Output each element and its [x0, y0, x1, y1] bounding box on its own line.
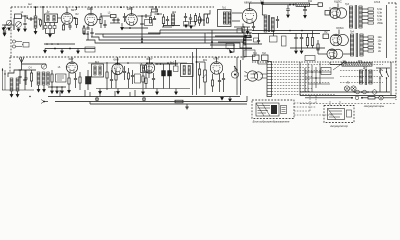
output bottom wire	[234, 26, 250, 28]
svg-text:R21: R21	[203, 60, 208, 62]
det box a	[184, 22, 189, 27]
harness wire 4	[120, 48, 252, 50]
ground bias	[185, 105, 189, 109]
choke bottom box	[270, 36, 278, 42]
svg-text:6А8: 6А8	[113, 58, 119, 62]
wire lower grid	[22, 63, 47, 65]
harness dashed lead 8	[272, 85, 307, 87]
phone jack J1	[44, 101, 48, 103]
tube V8 6A8 lower converter	[112, 63, 123, 74]
vibrator contact detail	[251, 74, 256, 78]
speaker to strip wire	[257, 61, 259, 65]
det box b	[190, 22, 195, 27]
AVC resistor R6	[152, 9, 158, 12]
svg-text:6Ж7: 6Ж7	[127, 7, 134, 11]
diode load resistor R5	[149, 18, 151, 24]
bus stub 4	[114, 91, 116, 97]
T1 core	[226, 11, 228, 25]
driver coupling cap C31	[200, 18, 201, 21]
output tube bypass C13	[252, 26, 255, 27]
V7 bypass capacitor C20	[74, 78, 77, 79]
output arrow right	[229, 98, 232, 101]
ground oscillator	[121, 27, 124, 30]
heater bus third	[90, 103, 247, 105]
power wires lower	[376, 67, 390, 69]
filter capacitor C15 electrolytic	[304, 7, 306, 9]
buffer capacitor C16	[295, 34, 297, 38]
svg-text:СЛ-6: СЛ-6	[374, 0, 381, 4]
tuning gang C19.1	[41, 64, 46, 69]
ground lower b	[16, 94, 19, 97]
filament dropping resistor R24 wirewound	[342, 63, 372, 66]
power unit dashed border top	[388, 2, 396, 4]
terminal X1 pin 6	[267, 79, 272, 81]
tube V10 6F6 lower output	[210, 62, 222, 74]
ammeter shunt R25	[368, 97, 375, 99]
wire det bottom	[163, 25, 180, 27]
feed vertical pair a	[236, 57, 238, 95]
power input resistor R27	[317, 44, 319, 50]
grid leak R8	[194, 16, 196, 22]
bleeder resistor R12	[306, 38, 308, 46]
harness drop a	[204, 33, 206, 43]
lower bus risers	[329, 62, 331, 65]
speaker transformer windings	[243, 38, 245, 45]
harness corner path 3	[210, 45, 234, 52]
ground collector b	[117, 91, 120, 94]
ground IFT1	[49, 34, 52, 37]
coupling capacitor C21	[110, 79, 113, 80]
vibrator transformer socket	[323, 34, 329, 39]
output transformer T2 primary	[264, 15, 267, 32]
switch wafer box B	[244, 50, 255, 57]
IF can 2 secondary	[99, 66, 101, 75]
padding cap C34	[18, 76, 21, 77]
harness to vibrator box	[294, 102, 316, 104]
panel lamp HL3	[379, 96, 383, 100]
ground lower e	[56, 90, 59, 93]
terminal X1 pin 10	[267, 91, 272, 93]
antenna coil T5 primary	[10, 78, 13, 91]
osc section capacitor C28	[103, 24, 106, 25]
mid cluster box	[254, 38, 259, 42]
harness dashed lead 4	[272, 73, 309, 75]
V8 grid capacitor C32	[123, 71, 126, 72]
ground collector d	[156, 91, 159, 94]
detector filter choke L4	[171, 14, 174, 25]
power wiring horizontals	[305, 71, 331, 73]
svg-text:6Ц5С: 6Ц5С	[334, 0, 343, 4]
bus crosslink 1	[96, 97, 98, 102]
output tube cathode resistor R10	[242, 27, 244, 32]
mid box	[85, 47, 95, 52]
vibrator converter terminals	[281, 106, 287, 114]
trimmer block b	[49, 26, 52, 29]
filter resistor R11 wirewound	[296, 3, 310, 6]
power mid fuse circles	[356, 90, 360, 94]
power switch S2	[379, 71, 380, 72]
svg-text:Др3: Др3	[363, 67, 368, 69]
junction lower row	[146, 62, 148, 64]
svg-text:Др2: Др2	[172, 12, 177, 14]
screen resistor R17	[115, 74, 117, 80]
screen junction top	[155, 6, 157, 8]
relay box power	[321, 68, 331, 75]
buffer capacitor C17	[301, 34, 303, 38]
pilot lamp HL2	[351, 86, 356, 91]
battery leads dashed	[329, 100, 331, 106]
tone capacitor C12	[189, 18, 192, 19]
antenna coil T5 step wire	[8, 64, 22, 77]
harness dashed lead 11	[272, 94, 336, 96]
converter bias wire	[87, 31, 89, 40]
jack terminal box	[23, 43, 29, 48]
harness junction 1	[141, 38, 143, 40]
extra nested corner 4	[207, 32, 250, 34]
IF coupling capacitor C9	[145, 14, 146, 17]
harness dashed lead 5	[272, 76, 313, 78]
ground input 3	[17, 28, 20, 31]
pickup jack Zv2	[12, 45, 15, 48]
AVC bus lower deck	[88, 62, 187, 64]
grid resistor R15	[79, 77, 81, 83]
screen feed wire 2	[252, 33, 320, 35]
ground output stage	[221, 97, 224, 100]
filter node 1	[289, 4, 291, 6]
IFT1 primary winding	[47, 16, 49, 22]
IF can 3 secondary	[188, 66, 190, 75]
ground output tube	[246, 31, 249, 34]
trimmer block c	[53, 26, 56, 29]
antenna V mark	[19, 58, 24, 63]
heater tap wire a	[362, 8, 368, 10]
tube V6 vibrator rectifier double	[330, 34, 342, 46]
electrolytic cap dark a	[162, 71, 166, 77]
wire driver step	[204, 10, 210, 26]
band coil L6	[37, 72, 40, 85]
terminal X1 pin 4	[267, 73, 272, 75]
harness junction 2	[129, 27, 131, 29]
ground input 4	[24, 28, 27, 31]
heater tap wire b	[362, 15, 368, 17]
stabilizer feed	[318, 53, 327, 55]
lower bus power 1	[300, 91, 390, 93]
rectifier socket box	[325, 11, 331, 16]
lower deck collector bus	[96, 88, 190, 90]
wafer box lower	[56, 74, 67, 82]
power switch S3	[386, 71, 387, 72]
svg-text:6Ф6С: 6Ф6С	[244, 1, 253, 5]
terminal X1 pin 1	[267, 64, 272, 66]
svg-text:6А8: 6А8	[87, 7, 93, 11]
tuning capacitor C3.1	[16, 22, 22, 28]
tube V4 6F6 output	[242, 9, 257, 24]
filter choke L9 winding	[359, 70, 362, 84]
band coil L7	[42, 72, 45, 85]
svg-text:ВП: ВП	[253, 74, 257, 76]
padder capacitor C18	[23, 79, 26, 80]
power terminal box bottom	[305, 56, 315, 61]
det wire row	[155, 63, 178, 65]
V2 grid resistor R3	[83, 28, 85, 34]
oscillator padder C7	[112, 19, 115, 20]
ground lower h	[43, 89, 46, 92]
vibrator converter pictorial details	[258, 106, 271, 114]
IF bypass C29	[140, 23, 143, 24]
harness wire top	[148, 32, 252, 34]
coupling capacitor C11	[184, 16, 187, 17]
lightning arrester F1	[3, 27, 7, 31]
ground lower c	[68, 90, 71, 93]
bus lower second	[55, 101, 247, 103]
mid cluster res R32	[245, 35, 251, 37]
padding cap C35	[24, 78, 27, 79]
V9 bypass C23	[152, 78, 155, 79]
bus stub 6	[134, 90, 136, 97]
vibrator prongs	[244, 72, 248, 81]
B+ rail junction	[261, 2, 263, 4]
svg-text:250в: 250в	[377, 22, 383, 25]
electrolytic cap dark b	[168, 71, 172, 77]
harness corner path 1	[215, 36, 246, 57]
V9 cathode resistor R19	[145, 78, 147, 84]
lower deck left bus	[2, 89, 34, 91]
harness dashed lead 7	[272, 82, 331, 84]
terminal X1 pin 3	[267, 70, 272, 72]
svg-text:Блок вибропреобразователя: Блок вибропреобразователя	[253, 120, 290, 124]
IF transformer IFT1 can	[45, 14, 58, 23]
V2 anode decoupling R4	[100, 17, 102, 24]
feed corner junction	[196, 61, 198, 63]
V10 bypass capacitor C25	[218, 80, 221, 81]
pilot lamp HL1	[344, 86, 349, 91]
junction driver	[203, 19, 205, 21]
switch arm S1	[234, 66, 237, 70]
chassis bus lower	[48, 96, 240, 98]
harness dashed lead 6	[272, 79, 311, 81]
driver grid stopper R9	[207, 18, 209, 23]
vibrator to strip wire b	[261, 77, 268, 79]
battery feed wire	[305, 97, 352, 99]
accumulator box dashed	[324, 106, 354, 123]
V8 padder C22	[147, 71, 150, 72]
AVC decoupling R16	[106, 72, 108, 78]
svg-text:Фп2: Фп2	[170, 61, 175, 64]
IF can 2	[92, 64, 104, 77]
bus stub 1	[84, 90, 86, 97]
accumulator terminals	[347, 110, 352, 117]
wire input node	[22, 15, 29, 17]
ground mid 3	[77, 50, 80, 53]
ground choke L2	[34, 31, 37, 34]
AF plate resistor R29	[198, 17, 200, 23]
terminal X1 pin 8	[267, 85, 272, 87]
bus crosslink 2	[143, 97, 145, 102]
riser power b	[304, 68, 306, 92]
harness dashed lead 9	[272, 88, 313, 90]
terminal X1 pin 11	[267, 94, 272, 96]
oscillator trimmer C8	[116, 19, 119, 20]
V8 screen cap C33	[131, 75, 134, 76]
power transformer T3 secondary winding	[359, 6, 362, 28]
V1 plate load resistor R2	[75, 19, 77, 25]
voice coil lead	[277, 16, 279, 19]
heater tap wire c	[362, 22, 368, 24]
receiver chassis dashed border (left)	[10, 7, 12, 56]
tap wire d	[363, 36, 368, 38]
harness drop b	[211, 30, 213, 49]
svg-text:Фп1: Фп1	[95, 61, 100, 64]
terminal X1 pin 9	[267, 88, 272, 90]
feed vertical pair b	[240, 60, 242, 95]
pickup jack Zv1	[12, 40, 15, 43]
junction row lower deck	[51, 86, 53, 88]
svg-text:6К7: 6К7	[71, 8, 76, 12]
AF choke tap wires	[232, 12, 242, 14]
speaker terminal box Gr1	[253, 55, 260, 61]
power unit dashed border right	[395, 3, 397, 100]
V8 grid resistor R18	[142, 76, 144, 82]
bus stub 3	[99, 90, 101, 97]
IF can 3	[181, 64, 194, 77]
output transformer T2 core	[268, 15, 270, 32]
converter bias cap C36	[90, 32, 93, 33]
power unit dashed divider	[252, 61, 396, 63]
vibrator transformer T4 secondary	[360, 34, 363, 56]
loop antenna lead-in	[21, 57, 23, 64]
tube V2 6A8 converter	[85, 13, 97, 25]
tap wire f	[363, 50, 368, 52]
filter capacitor C14 electrolytic	[287, 5, 289, 9]
second det cap C30	[166, 19, 169, 20]
polarity diamond	[372, 89, 378, 94]
IFT1 secondary winding	[53, 16, 55, 22]
harness dashed bundle right extension	[340, 64, 383, 66]
ground mid 2	[61, 50, 64, 53]
harness wire 2	[91, 37, 252, 40]
tube V5 6Ts5 rectifier double diode	[330, 8, 341, 19]
harness dashed lead 1	[272, 64, 341, 66]
ground detector 1	[185, 24, 188, 27]
band coil L10	[47, 72, 49, 85]
tube V11 stabilizer double	[327, 49, 337, 59]
gang link dashed lower	[44, 74, 52, 76]
terminal X1 pin 2	[267, 67, 272, 69]
receiver lower-deck dashed border	[10, 56, 247, 58]
harness wire 1	[95, 34, 252, 37]
RF choke L2 to chassis line	[35, 8, 37, 16]
vibrator to strip wire a	[261, 73, 268, 75]
mid junction dots	[46, 43, 48, 45]
accumulator dashed feeder	[300, 103, 396, 105]
vibrator transformer T4 core	[355, 33, 357, 57]
accumulator pictorial	[328, 109, 345, 120]
series resistor R30	[30, 73, 32, 81]
padding capacitor C4	[23, 23, 26, 24]
grid cap C26	[222, 78, 225, 79]
ground detector 2	[190, 25, 193, 28]
harness corner path 2	[218, 42, 243, 60]
link resistor R26	[40, 20, 42, 25]
component box lower mid	[135, 74, 141, 83]
V7 cathode resistor R14	[68, 78, 70, 84]
svg-text:6,3в: 6,3в	[377, 19, 382, 22]
V8 cathode resistor R28	[127, 73, 129, 79]
IF grid junction	[141, 15, 143, 17]
trimmer capacitor C2	[6, 20, 11, 25]
trimmer block a	[44, 26, 47, 29]
junction IF	[157, 13, 159, 15]
receiver chassis dashed border (top)	[11, 6, 214, 8]
V8 oscillator coil L8	[141, 65, 147, 73]
rheostat arrow	[333, 61, 346, 70]
shielded coil dark	[86, 77, 92, 85]
output interstage transformer T1 can	[218, 10, 232, 27]
svg-text:6,3в: 6,3в	[377, 12, 382, 15]
tube V1 6K7 RF amplifier	[61, 13, 73, 25]
wave-range coil L1	[15, 14, 22, 19]
ground lower d	[51, 90, 54, 93]
terminal X1 pin 7	[267, 82, 272, 84]
terminal strip X1	[267, 62, 272, 97]
tap wire e	[363, 43, 368, 45]
B+ wire	[263, 4, 318, 6]
harness dashed lead 2	[272, 67, 311, 69]
mid cluster wire	[244, 43, 262, 45]
ground collector a	[99, 91, 102, 94]
riser power a	[299, 62, 301, 96]
ground lower f	[61, 90, 64, 93]
power corner box	[282, 36, 287, 46]
antenna coupling capacitor C1	[3, 31, 6, 32]
vibrator unit VP1 body	[247, 71, 257, 81]
det cluster box	[145, 20, 153, 26]
vibrator converter box dashed	[252, 100, 294, 119]
power transformer T3 core	[354, 5, 356, 29]
ground lower g	[37, 89, 40, 92]
bus riser a	[59, 90, 61, 97]
heater bus corner	[103, 30, 160, 34]
vibrator transformer T4 primary	[350, 34, 353, 56]
output jack can	[231, 71, 238, 78]
left deck stub wires	[2, 68, 4, 90]
junction row lower left	[54, 48, 56, 50]
ground mid 1	[44, 50, 47, 53]
bus stub 2	[89, 92, 91, 97]
antenna W1	[2, 24, 8, 26]
bleeder resistor R13	[311, 38, 313, 46]
ground buffer cap a	[295, 50, 298, 53]
oscillator coil L3	[111, 15, 117, 18]
detector resistor R20	[198, 69, 200, 75]
svg-text:6Х6С: 6Х6С	[336, 26, 344, 30]
tap rows lower transformer extra	[363, 40, 368, 42]
filter choke L9 second winding	[369, 70, 372, 84]
HT bus vertical	[386, 5, 388, 58]
gap cap C37	[123, 16, 126, 17]
tube V7 6K7 lower RF	[66, 62, 77, 73]
long vertical feed 2	[196, 49, 198, 96]
det small box	[174, 66, 179, 72]
output transformer T2 secondary	[271, 18, 274, 32]
IFT1 feed from top	[42, 6, 44, 8]
tap rows upper transformer extra	[362, 12, 368, 14]
V1 screen bypass C5	[68, 26, 71, 27]
B+ terminal	[318, 3, 323, 7]
volume control R21	[204, 70, 207, 82]
screen feed wire	[252, 30, 330, 32]
V10 cathode resistor R22	[211, 80, 213, 86]
